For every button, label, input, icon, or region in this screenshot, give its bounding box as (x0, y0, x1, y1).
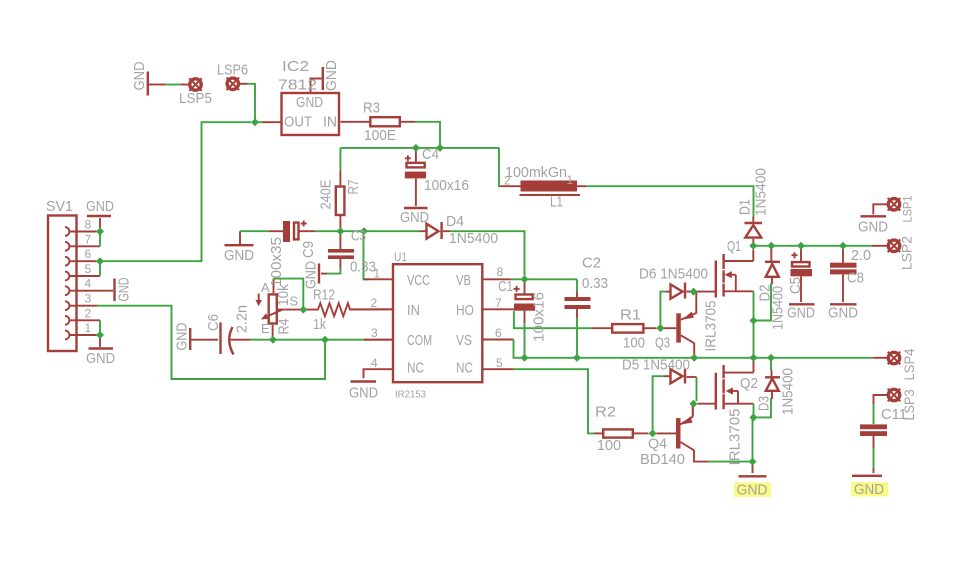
junction Q2 gate node (690, 400, 698, 408)
ground below C5 (789, 303, 815, 305)
junction C2/VS node (573, 354, 581, 362)
svg-text:VCC: VCC (407, 272, 430, 289)
diode D2 1N5400 (765, 249, 780, 285)
junction C4 node (412, 144, 420, 152)
U1 pin 1 VCC (364, 278, 394, 280)
svg-text:GND: GND (296, 94, 323, 111)
wire R4 bottom E to COM (272, 337, 274, 340)
svg-text:R12: R12 (313, 287, 335, 304)
ground left of LSP5 (148, 72, 165, 96)
IC U1 IR2153 (393, 264, 482, 382)
svg-text:2.2n: 2.2n (234, 305, 251, 333)
wire pin3 to COM loop (97, 306, 325, 379)
svg-text:1k: 1k (313, 316, 326, 333)
svg-text:GND: GND (854, 481, 884, 498)
svg-text:2: 2 (504, 174, 511, 188)
wire L1 drop (499, 148, 500, 186)
svg-text:100x16: 100x16 (531, 292, 548, 342)
svg-text:Q3: Q3 (655, 335, 670, 352)
junction SV1 pin1 (96, 331, 104, 339)
ground below SV1 pin 1 (89, 338, 114, 349)
capacitor C4 (405, 150, 426, 206)
svg-text:C4: C4 (422, 146, 439, 163)
capacitor C1 100x16 (514, 282, 535, 323)
svg-text:IRL3705: IRL3705 (703, 301, 720, 352)
svg-text:LSP5: LSP5 (179, 90, 212, 107)
junction COM branch node (321, 336, 329, 344)
wire to power ground (752, 462, 754, 473)
wire VS line (514, 340, 874, 358)
U1 pin 8 VB (484, 278, 512, 280)
wire Q4 emitter node stub (692, 406, 694, 417)
ground below C3 (319, 264, 327, 284)
diode D3 1N5400 (765, 358, 780, 399)
junction VCC branch node (360, 227, 368, 235)
diode D1 1N5400 (745, 217, 763, 244)
junction D3 top node (767, 354, 775, 362)
junction D2 top node (767, 242, 775, 250)
wire C9 to VCC node (315, 230, 364, 232)
ground left of C6 (190, 328, 218, 350)
svg-text:C3: C3 (351, 228, 366, 245)
svg-text:L1: L1 (550, 194, 563, 211)
svg-text:GND: GND (349, 385, 378, 402)
svg-text:6: 6 (495, 326, 502, 340)
wire pins 7-8 tie (99, 232, 101, 247)
svg-text:D3: D3 (756, 396, 773, 411)
wire VCC rail y148 (340, 147, 499, 149)
connector SV1 (48, 216, 77, 352)
svg-text:C2: C2 (582, 255, 601, 272)
wire D2 to Q1 source node (754, 284, 773, 321)
wire Q1 source to VS (753, 291, 755, 358)
svg-text:7: 7 (85, 232, 92, 246)
svg-text:VS: VS (456, 332, 472, 349)
svg-text:GND: GND (86, 350, 115, 367)
capacitor C6 2.2n (221, 323, 251, 355)
svg-text:GND: GND (86, 198, 114, 215)
svg-text:C6: C6 (205, 314, 222, 331)
wire Q2 source to D3 node (753, 404, 755, 418)
svg-text:1N5400: 1N5400 (753, 168, 770, 216)
solder pad LSP4 (888, 352, 901, 365)
svg-text:7812: 7812 (278, 77, 317, 94)
svg-text:NC: NC (456, 360, 473, 377)
svg-text:3: 3 (371, 326, 378, 340)
wire VCC to D4 (364, 230, 419, 232)
svg-text:3: 3 (85, 292, 92, 306)
svg-text:LSP4: LSP4 (901, 348, 917, 380)
wire COM line (251, 339, 365, 341)
capacitor C3 0.33 (328, 234, 354, 268)
svg-text:U1: U1 (394, 250, 407, 264)
svg-text:C1: C1 (498, 278, 513, 295)
SV1 pin 4 (70, 290, 114, 292)
svg-text:100E: 100E (364, 127, 396, 144)
svg-text:D6 1N5400: D6 1N5400 (639, 266, 708, 283)
svg-text:240E: 240E (318, 180, 335, 210)
resistor R12 1k (307, 303, 392, 316)
resistor R3 (370, 117, 415, 126)
junction Q4 collector node (749, 458, 757, 466)
U1 pin numbers (371, 265, 504, 370)
ground left of C9 (225, 231, 254, 245)
ground at U1 pin 4 (351, 380, 377, 382)
svg-text:IN: IN (323, 114, 337, 131)
SV1 pin 1 (70, 334, 97, 336)
svg-text:1N5400: 1N5400 (770, 286, 787, 330)
wire pin6 to 7812 OUT riser (100, 122, 251, 261)
solder pad LSP1 (873, 198, 900, 215)
U1 pin 4 NC (364, 369, 394, 378)
ground below C8 (830, 303, 857, 305)
junction R2/Q4 base node (649, 429, 657, 437)
junction R4 bottom node (269, 336, 277, 344)
svg-text:NC: NC (407, 360, 424, 377)
svg-text:GND: GND (303, 261, 320, 289)
svg-text:GND: GND (828, 305, 858, 322)
svg-text:1N5400: 1N5400 (449, 230, 498, 247)
svg-text:GND: GND (174, 322, 191, 350)
U1 pin 5 (484, 368, 514, 370)
solder pad LSP3 (874, 389, 901, 404)
svg-text:Q4: Q4 (648, 436, 667, 453)
wire LSP3 to C11 (873, 404, 875, 424)
U1 pin 3 COM (364, 339, 393, 341)
diode D5 1N5400 (664, 369, 697, 384)
U1 pin 2 IN (350, 308, 393, 310)
svg-text:100: 100 (597, 437, 621, 454)
junction R1/D6 node (656, 324, 664, 332)
capacitor C9 100x35 (269, 221, 315, 243)
wire COM stub to U1 pin3 (364, 339, 392, 341)
svg-text:10k: 10k (275, 284, 292, 306)
highlighted GND below C11 (851, 481, 888, 498)
junction Q1 gate node (690, 288, 698, 296)
junction Q2 source node (750, 413, 758, 421)
junction VB node (521, 275, 529, 283)
svg-text:HO: HO (456, 302, 474, 319)
SV1 pin 3 (70, 305, 98, 307)
SV1 pin 8 (70, 231, 97, 233)
SV1 pin numbers (85, 218, 92, 336)
svg-text:1: 1 (374, 267, 381, 281)
svg-text:SV1: SV1 (46, 198, 73, 215)
ground below C11 (852, 468, 882, 476)
trimmer R4 10k (255, 279, 300, 337)
svg-text:5: 5 (496, 356, 503, 370)
svg-text:Q2: Q2 (740, 375, 758, 392)
wire C1 bottom to VS (524, 323, 526, 358)
wire VS to LSP4 (873, 357, 887, 359)
transistor Q3 (664, 292, 697, 356)
svg-text:GND: GND (224, 247, 254, 264)
solder pad LSP5 (181, 78, 202, 91)
svg-text:GND: GND (787, 305, 815, 322)
wire R3 to C4 node (415, 122, 440, 148)
svg-text:8: 8 (497, 265, 504, 279)
wire GND to C9 (240, 230, 269, 232)
svg-text:100: 100 (623, 335, 645, 352)
junction R4 wiper node (299, 306, 307, 314)
svg-text:GND: GND (858, 219, 888, 236)
voltage regulator IC2 7812 (262, 67, 370, 135)
svg-text:GND: GND (400, 209, 429, 226)
wire pins 5-6 tie (99, 261, 101, 276)
junction D1 anode node (749, 242, 757, 250)
svg-text:1: 1 (567, 173, 574, 187)
wire rail to LSP2 (872, 245, 887, 247)
U1 pin labels (407, 272, 474, 377)
highlighted GND below Q4 (734, 482, 771, 499)
wire Q1 gate node (697, 291, 716, 293)
svg-text:D4: D4 (446, 213, 464, 230)
junction C1/VS node (521, 354, 529, 362)
svg-text:6: 6 (85, 247, 92, 261)
junction C8 node (839, 242, 847, 250)
ground below C4 (404, 207, 428, 209)
junction SV1 pin6 (96, 257, 104, 265)
svg-text:100x16: 100x16 (424, 177, 469, 194)
svg-text:5: 5 (85, 262, 92, 276)
svg-text:7: 7 (495, 296, 502, 310)
wire C3 to ground (327, 268, 340, 274)
svg-text:IRL3705: IRL3705 (727, 409, 744, 466)
svg-text:Q1: Q1 (727, 238, 741, 255)
wire pin5 to R2 (514, 369, 594, 433)
svg-text:2: 2 (371, 296, 378, 310)
svg-text:COM: COM (407, 332, 432, 349)
junction Q1 source node (750, 317, 758, 325)
svg-text:2: 2 (85, 306, 92, 320)
svg-text:C5: C5 (787, 277, 804, 294)
MOSFET Q2 IRL3705 (716, 361, 754, 410)
svg-text:GND: GND (737, 482, 768, 499)
wire VCC branch to U1 pin1 (364, 231, 370, 279)
svg-text:4: 4 (85, 277, 92, 291)
svg-text:4: 4 (371, 356, 378, 370)
wire D4 to VB node (450, 231, 525, 275)
capacitor C5 (791, 249, 813, 303)
svg-text:R7: R7 (345, 180, 362, 195)
svg-text:GND: GND (131, 61, 148, 90)
junction C5 node (797, 242, 805, 250)
ground at LSP1 (861, 215, 887, 217)
junction R3 node (436, 144, 444, 152)
SV1 pin 6 (70, 260, 97, 262)
wire VB node (511, 278, 577, 280)
resistor R1 100 (592, 324, 657, 333)
svg-text:C11: C11 (881, 406, 907, 423)
capacitor C8 2.0 (830, 249, 857, 303)
wire Q2 gate node (698, 403, 716, 405)
solder pad LSP2 (888, 240, 901, 253)
wire output rail (753, 245, 872, 247)
svg-text:R1: R1 (620, 307, 641, 324)
svg-text:2.0: 2.0 (851, 247, 871, 264)
SV1 pin 2 (70, 319, 101, 321)
svg-text:R3: R3 (363, 100, 380, 117)
junction R7/C9/C3 node (336, 227, 344, 235)
svg-text:R4: R4 (276, 319, 293, 335)
wire D5 cathode to Q2 gate node (696, 377, 698, 401)
wire Q4 collector (708, 461, 753, 463)
svg-text:GND: GND (323, 60, 340, 91)
SV1 pin 5 (70, 275, 101, 277)
svg-text:C8: C8 (847, 270, 864, 287)
svg-text:0.33: 0.33 (350, 259, 376, 276)
U1 pin 6 VS (484, 339, 514, 341)
svg-text:IR2153: IR2153 (395, 390, 426, 401)
wire C11 to ground (873, 448, 875, 468)
svg-text:0.33: 0.33 (582, 275, 608, 292)
svg-text:LSP6: LSP6 (217, 62, 248, 79)
svg-text:D1: D1 (737, 199, 754, 215)
wire switch node to Q4 collector node (752, 417, 754, 461)
wire D5 anode branch (653, 376, 664, 430)
junction OUT node (251, 118, 259, 126)
resistor R7 240E (336, 148, 345, 228)
junction SV1 pin8 (96, 228, 104, 236)
MOSFET Q1 IRL3705 (716, 250, 754, 298)
wire D3 bottom to Q2 source (754, 399, 773, 417)
svg-text:VB: VB (456, 272, 471, 289)
wire HO to R1 (514, 311, 592, 328)
svg-text:IC2: IC2 (282, 58, 309, 75)
svg-text:A: A (261, 280, 270, 295)
svg-text:GND: GND (116, 277, 133, 301)
svg-text:LSP2: LSP2 (899, 236, 915, 270)
wire GND to LSP5 (165, 84, 181, 86)
wire L1 to D1 (586, 186, 754, 216)
resistor R2 100 (594, 429, 649, 437)
diode D4 1N5400 (419, 222, 450, 239)
svg-text:IN: IN (407, 302, 420, 319)
svg-text:1N5400: 1N5400 (780, 368, 797, 415)
inductor L1 100mkGn (500, 181, 586, 196)
diode D6 1N5400 (666, 283, 691, 299)
svg-text:OUT: OUT (284, 114, 312, 131)
ground at SV1 pin 4 (113, 279, 115, 302)
capacitor C11 (860, 424, 887, 448)
wire R4 top A to wiper S (274, 279, 304, 310)
svg-text:C9: C9 (300, 241, 317, 258)
svg-text:100mkGn: 100mkGn (505, 164, 567, 181)
solder pad LSP6 (227, 78, 248, 91)
ground below Q2/Q4 (739, 475, 767, 477)
U1 pin 7 HO (484, 308, 515, 310)
svg-text:1: 1 (85, 321, 92, 335)
svg-text:LSP1: LSP1 (901, 195, 915, 222)
wire pins 1-2 tie (99, 320, 101, 335)
transistor Q4 BD140 (656, 406, 708, 462)
svg-text:100x35: 100x35 (268, 237, 285, 287)
capacitor C2 0.33 (565, 279, 591, 358)
ground above SV1 pin 8 (87, 216, 111, 228)
svg-text:BD140: BD140 (640, 451, 685, 468)
svg-text:R2: R2 (595, 404, 616, 421)
svg-text:8: 8 (85, 218, 92, 232)
junction VS/Q2 drain node (750, 354, 758, 362)
wire LSP6 down to OUT node (248, 84, 256, 122)
junction Q3 collector node (690, 354, 698, 362)
wire OUT node stub (255, 121, 262, 123)
SV1 pin 7 (70, 245, 101, 247)
svg-text:D5 1N5400: D5 1N5400 (622, 357, 690, 374)
wire R1 node to D6 (660, 292, 666, 329)
svg-text:E: E (261, 321, 270, 336)
